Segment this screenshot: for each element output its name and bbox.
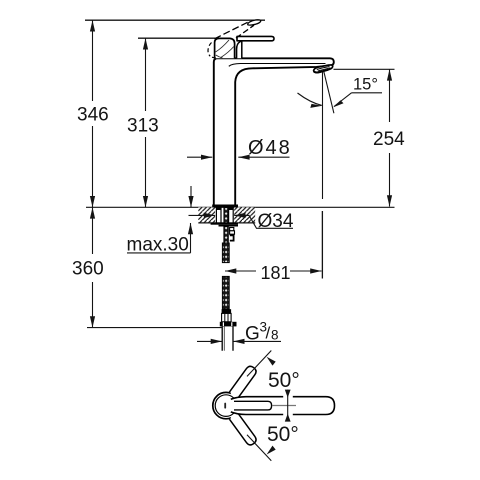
hose braid upper segment [222,243,229,263]
dim 313 [145,38,147,207]
mounting bolt channel left [216,208,221,223]
dome outer circle [213,392,239,418]
lower leg thin line and arrow [247,435,271,461]
dim G3/8 [197,340,222,342]
svg-text:50°: 50° [267,423,299,446]
lever neck [237,41,242,58]
mounting nut [211,223,238,225]
raised lever dashed edges [215,22,250,39]
dim 360 [92,207,94,327]
horizontal handle white fill [230,397,334,415]
check valve fitting [230,228,234,231]
extension line top for dim 346 [85,19,265,21]
dome inner contour lines [216,40,234,58]
arc arrow at vertical line [298,93,322,105]
svg-text:15°: 15° [353,76,378,94]
inner shaft outline [234,401,272,410]
leader from 15 deg label [334,93,352,107]
dome inner circle [215,395,237,417]
threaded shank in hole [224,208,228,223]
svg-text:313: 313 [127,116,159,137]
aerator at spout tip [314,65,333,73]
svg-text:346: 346 [77,105,109,126]
lever blade (closed position) [237,36,274,40]
svg-text:181: 181 [261,263,291,283]
angle dim vertical [287,390,289,422]
faucet body outline [214,58,334,204]
base plinth [212,205,238,208]
countertop hatched section right [234,207,255,223]
ext line bottom 360 [87,327,222,329]
dim max.30 [190,186,192,207]
svg-text:254: 254 [373,129,405,150]
dim 254 [389,69,391,206]
countertop hatched section left [198,207,215,223]
svg-text:/: / [266,324,271,343]
svg-text:360: 360 [72,259,104,280]
handle ghost lower 50 [229,412,258,447]
extension line top for dim 313 [138,37,225,39]
ext line 254 top [334,68,395,70]
svg-text:Ø48: Ø48 [248,137,292,159]
handle ghost upper 50 [229,365,258,400]
center line gray [273,405,297,407]
horizontal handle outline [231,397,283,400]
countertop bottom line [198,222,255,224]
15 deg angled line [324,72,334,114]
svg-text:8: 8 [271,328,279,343]
dim diameter 34 [189,214,216,216]
hose braid lower segment [222,276,229,309]
dim 181 right extension [321,211,323,279]
dim 346 [92,20,94,207]
vertical stream line [322,72,324,279]
raised lever tip (lens) [248,20,261,25]
mounting bolt channel right [229,208,234,223]
svg-text:Ø34: Ø34 [258,211,294,232]
upper leg thin line and arrow [247,351,271,377]
cartridge dome [215,38,235,58]
G3/8 nut [220,322,237,327]
center tick [224,403,226,409]
svg-text:50°: 50° [268,369,300,392]
dim diameter 48 [187,156,212,158]
svg-text:G: G [245,323,260,344]
rotated dome dashed outline [208,43,212,57]
countertop top line [86,206,395,208]
hose crimp collar [222,309,232,313]
threaded shank below nut [224,227,228,244]
dim 181 [225,270,322,272]
body highlight line [229,64,326,67]
connection tube [222,326,233,350]
